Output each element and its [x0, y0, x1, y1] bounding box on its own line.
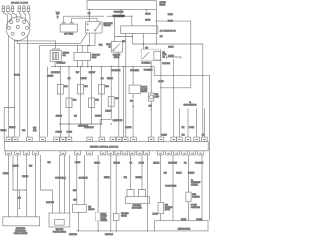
svg-text:FUSE: FUSE — [163, 54, 167, 56]
knock sensor KS1 staple — [127, 190, 134, 197]
injector INJ1 — [57, 84, 63, 94]
svg-text:FUSIBLE LINK: FUSIBLE LINK — [114, 11, 124, 13]
plug wire 6 — [28, 12, 30, 27]
starter relay K1 — [74, 53, 90, 61]
injector 2 leg — [68, 108, 70, 137]
pin marks lower — [7, 152, 202, 154]
c100 wire out — [97, 221, 99, 231]
plug wire 4 — [19, 12, 21, 20]
ETCM box — [3, 217, 40, 226]
map sensor feed 1 — [76, 155, 78, 205]
dot mid bottom d — [147, 230, 148, 231]
junction dot — [131, 16, 132, 17]
svg-text:LT GRN: LT GRN — [67, 131, 72, 133]
wire jog left — [4, 108, 14, 142]
injector column 3 feed — [80, 67, 82, 85]
svg-text:DK GRN/BLK: DK GRN/BLK — [57, 63, 66, 65]
svg-text:CONTROL: CONTROL — [104, 25, 111, 27]
svg-text:GRN: GRN — [22, 130, 25, 132]
alternator box B3 — [121, 26, 158, 34]
svg-text:TO TEST: TO TEST — [191, 205, 197, 207]
bottom ground bus — [77, 230, 155, 232]
wire to alternator top — [131, 16, 133, 26]
svg-text:THROTTLE: THROTTLE — [56, 229, 64, 231]
svg-text:BLK: BLK — [182, 127, 185, 129]
svg-text:BLK/WHT: BLK/WHT — [105, 110, 112, 112]
spark plug P1 — [2, 6, 5, 12]
wire mid bottom a — [110, 155, 112, 231]
park solenoid wire — [187, 155, 189, 192]
svg-text:DK GRN/PNK: DK GRN/PNK — [79, 177, 88, 179]
spark plug P2 — [7, 6, 10, 12]
ECM box — [4, 141, 208, 150]
svg-text:POSITION SENSOR: POSITION SENSOR — [53, 232, 66, 234]
svg-text:DK GRN/BLK: DK GRN/BLK — [112, 70, 121, 72]
csv out cont — [132, 99, 134, 138]
ECM lower pin row — [6, 151, 204, 155]
svg-text:GRY: GRY — [73, 200, 76, 202]
svg-text:WHT/BLK: WHT/BLK — [114, 163, 120, 165]
relay feed wires — [77, 46, 88, 53]
relay contacts — [143, 52, 149, 59]
svg-text:TAN/BLK: TAN/BLK — [107, 77, 113, 80]
svg-text:OIL PRESS: OIL PRESS — [121, 213, 129, 215]
injector INJ6 — [108, 97, 114, 107]
svg-text:ALTERNATE: ALTERNATE — [133, 204, 141, 207]
svg-text:OV TEMP: OV TEMP — [141, 89, 147, 91]
splice arrow A — [103, 15, 105, 17]
cold start valve — [129, 85, 140, 94]
distributor cap terminal box B1 — [60, 23, 77, 32]
ignition coil B2 — [50, 49, 61, 61]
svg-text:LT GRN: LT GRN — [75, 162, 80, 164]
plug wire 1 — [3, 12, 7, 26]
csv arrow — [132, 97, 134, 99]
pump leg — [150, 101, 152, 137]
svg-text:PPL/BRN: PPL/BRN — [22, 176, 28, 178]
wire alt arrow drop — [142, 33, 144, 36]
svg-text:A/C: A/C — [163, 51, 165, 54]
svg-text:BLK/PPL: BLK/PPL — [104, 177, 110, 179]
svg-text:TO A/C SYSTEM: TO A/C SYSTEM — [165, 184, 177, 187]
junction dot — [112, 16, 113, 17]
fuel pump M1 — [149, 93, 154, 101]
connector bracket C2 — [167, 57, 181, 59]
svg-text:START MOT: START MOT — [92, 53, 100, 56]
svg-text:B/U LP: B/U LP — [106, 44, 111, 46]
svg-text:INJ 5: INJ 5 — [105, 86, 109, 88]
tps wire 4 — [69, 155, 71, 213]
svg-text:ORN: ORN — [73, 190, 76, 192]
svg-text:FUEL: FUEL — [155, 94, 159, 96]
wire after fusible link — [125, 15, 132, 17]
junction block box — [155, 221, 208, 231]
svg-text:RED: RED — [145, 47, 148, 49]
svg-text:TAN/BLK: TAN/BLK — [0, 129, 6, 132]
injector column 2 feed — [68, 67, 70, 98]
svg-text:CLUSTER: CLUSTER — [191, 185, 198, 187]
svg-text:BRN: BRN — [48, 162, 51, 164]
svg-text:BLK/WHT: BLK/WHT — [56, 115, 63, 117]
svg-text:1 BLK/W: 1 BLK/W — [168, 55, 174, 57]
svg-text:SWITCH: SWITCH — [160, 4, 166, 6]
svg-text:DK GRN: DK GRN — [14, 75, 20, 77]
svg-text:BLK/WHT: BLK/WHT — [80, 78, 87, 80]
svg-text:SOLENOID: SOLENOID — [165, 207, 172, 209]
dot L2 — [156, 43, 157, 44]
svg-text:DK GRN/BLK: DK GRN/BLK — [130, 70, 139, 72]
svg-text:BLK/LT BLU: BLK/LT BLU — [105, 234, 113, 236]
distributor cap — [6, 17, 30, 41]
park out — [187, 202, 189, 221]
svg-text:DK BLU: DK BLU — [145, 20, 150, 22]
tps wire 2 — [59, 155, 61, 213]
plug wire 2 — [8, 12, 12, 20]
svg-text:WHT: WHT — [29, 166, 32, 168]
ecm c2 wires — [179, 109, 204, 138]
wire ign sw drop to module — [88, 9, 90, 21]
junction dot — [156, 20, 157, 21]
svg-text:WHT: WHT — [33, 128, 36, 130]
wire mid bottom d — [147, 155, 149, 231]
svg-text:(C-D): (C-D) — [33, 130, 37, 132]
distributor towers — [7, 19, 28, 35]
svg-text:PPL/WHT (BLU): PPL/WHT (BLU) — [55, 177, 66, 179]
lower pin labels row — [3, 162, 204, 179]
svg-text:DK BLU: DK BLU — [168, 46, 173, 48]
junction dot — [132, 36, 133, 37]
lower left wires to ETCM — [9, 155, 36, 217]
svg-text:ENGINE CONTROL MODULE: ENGINE CONTROL MODULE — [90, 147, 119, 149]
injector ground bus — [59, 119, 100, 137]
svg-text:GRY/RED: GRY/RED — [135, 177, 142, 179]
wire F down — [47, 67, 49, 137]
fusible link — [113, 15, 125, 18]
tach test terminal — [56, 15, 59, 19]
svg-text:BLK: BLK — [74, 115, 77, 117]
svg-text:DK BLU: DK BLU — [176, 173, 181, 175]
svg-text:DK BLU: DK BLU — [168, 14, 173, 16]
junction dot — [143, 43, 144, 44]
knock sensor wire 2 — [141, 155, 143, 190]
svg-text:BLK/WHT BLK: BLK/WHT BLK — [113, 120, 123, 122]
svg-text:RLY: RLY — [163, 56, 166, 58]
svg-text:DK BLU: DK BLU — [153, 214, 158, 216]
wire dist C down — [19, 43, 21, 137]
svg-text:IGNITION SWITCH: IGNITION SWITCH — [178, 229, 190, 231]
svg-text:INJ 1: INJ 1 — [64, 86, 68, 88]
tps wire 3 — [64, 155, 66, 213]
injector INJ2 — [66, 98, 72, 108]
wire ign sw right drop — [155, 9, 157, 43]
wire L1 — [156, 21, 191, 88]
wire coil to bus — [54, 61, 56, 66]
plug wire 5 — [24, 12, 26, 21]
knock sensor KS2 staple — [139, 190, 146, 197]
svg-text:INJ 3: INJ 3 — [84, 86, 88, 88]
svg-text:INJ 6: INJ 6 — [115, 98, 119, 100]
ign switch stub c — [146, 9, 148, 11]
svg-text:PUMP: PUMP — [155, 97, 159, 99]
svg-text:CONNECTOR: CONNECTOR — [191, 207, 200, 209]
pn switch out — [118, 52, 120, 137]
svg-text:PPL: PPL — [184, 163, 187, 165]
wire L2 right rail — [132, 44, 202, 137]
svg-text:INJ 2: INJ 2 — [73, 100, 77, 102]
svg-text:LT GRN: LT GRN — [139, 163, 144, 165]
injector 5 leg — [101, 94, 103, 124]
injector 3 leg — [80, 94, 82, 124]
svg-text:BLK/WHT: BLK/WHT — [95, 115, 102, 117]
svg-text:(PPL): (PPL) — [99, 45, 103, 47]
wire right bottom c — [201, 155, 203, 221]
svg-text:SWITCH: SWITCH — [121, 215, 127, 217]
dot bus end — [100, 123, 101, 124]
svg-text:DK BLU: DK BLU — [145, 14, 150, 16]
svg-text:SENSOR: SENSOR — [88, 209, 94, 211]
knock sensor wire 1 — [130, 155, 132, 190]
csv feed — [132, 67, 134, 86]
spark plug P3 — [11, 6, 14, 12]
svg-text:SEE FUSE BLK: SEE FUSE BLK — [78, 125, 88, 127]
svg-text:BATTERY: BATTERY — [160, 1, 167, 4]
svg-text:SOLENOID: SOLENOID — [192, 197, 199, 199]
ign switch stub b — [120, 9, 122, 14]
dot pump bus cross — [151, 66, 152, 67]
svg-text:ELECTRONIC: ELECTRONIC — [16, 228, 25, 230]
svg-text:TO: TO — [191, 180, 194, 182]
wire right rail — [154, 76, 209, 221]
svg-text:LT GRN: LT GRN — [189, 127, 194, 129]
pn switch feed — [115, 16, 133, 41]
svg-text:COIL: COIL — [63, 55, 67, 57]
wire module out 1 — [88, 33, 90, 46]
svg-text:BLK/WHT: BLK/WHT — [125, 127, 132, 129]
wire HB module feed — [72, 18, 98, 22]
svg-text:MAP: MAP — [88, 206, 91, 209]
svg-text:CAP TERM: CAP TERM — [64, 33, 74, 36]
svg-text:IGNITION: IGNITION — [63, 53, 69, 55]
svg-text:1 BLK/W: 1 BLK/W — [161, 135, 167, 137]
injector column 6 feed — [110, 67, 112, 97]
fuel pump relay K2 — [141, 49, 161, 61]
wire alt out mid — [131, 33, 133, 44]
wire alt out left — [125, 33, 127, 137]
svg-text:ALTERNATOR: ALTERNATOR — [160, 29, 176, 32]
wire HA fuse line — [64, 15, 103, 17]
spark plug P5 — [23, 6, 26, 12]
svg-text:RED: RED — [164, 173, 167, 175]
svg-text:EGR: EGR — [165, 204, 168, 206]
svg-text:BLK/WHT: BLK/WHT — [188, 173, 195, 175]
injector 6 leg — [100, 106, 111, 119]
svg-text:INJ 4: INJ 4 — [95, 100, 99, 102]
svg-text:ECM CONNECTOR: ECM CONNECTOR — [184, 104, 197, 106]
svg-text:BLK: BLK — [130, 101, 133, 103]
wire HA fuse line cont — [107, 15, 113, 17]
plug wire 3 — [12, 12, 16, 19]
svg-text:SPARK PLUGS: SPARK PLUGS — [11, 2, 28, 5]
wire dist D down — [27, 36, 29, 138]
map sensor feed 2 — [83, 155, 85, 205]
ECM upper pin row — [6, 137, 207, 141]
c100 connector — [95, 212, 100, 221]
svg-text:TACH: TACH — [56, 12, 60, 15]
wire right b — [173, 59, 175, 137]
upper pin labels row — [0, 125, 204, 136]
oil switch wire — [115, 155, 117, 214]
injector column 5 feed — [101, 67, 103, 85]
svg-text:DK GRN/BLK: DK GRN/BLK — [51, 72, 60, 74]
svg-text:C16: C16 — [202, 135, 205, 137]
svg-text:BRN: BRN — [149, 106, 152, 108]
feed bus — [51, 67, 154, 76]
egr out — [160, 214, 162, 221]
injector INJ3 — [78, 84, 84, 94]
svg-text:BLU: BLU — [160, 36, 163, 38]
knock sensor base box — [125, 197, 149, 204]
oil switch out — [115, 220, 117, 231]
svg-text:PPL/WHT: PPL/WHT — [56, 131, 63, 133]
throttle position sensor — [49, 213, 70, 227]
svg-text:BRN/BLK: BRN/BLK — [153, 163, 159, 165]
svg-text:DK BLU/OR: DK BLU/OR — [162, 63, 170, 65]
wire H3 — [17, 33, 87, 43]
relay feed dots — [77, 45, 89, 46]
svg-text:GROUND: GROUND — [101, 220, 107, 222]
svg-text:DK BLU: DK BLU — [168, 20, 173, 22]
svg-text:PNK: PNK — [182, 135, 185, 137]
svg-text:WHT: WHT — [76, 72, 79, 74]
ignition module U1 — [85, 22, 102, 33]
gnd bus dots — [60, 123, 112, 124]
wire arrow cont — [142, 39, 144, 49]
park neutral switch S1 — [111, 42, 122, 53]
wire right a — [160, 59, 162, 137]
dot pn feed — [114, 16, 115, 17]
svg-text:BLK: BLK — [18, 198, 21, 200]
svg-text:CONTROL MODULE: CONTROL MODULE — [14, 233, 28, 235]
wire H2 module return — [40, 33, 95, 137]
injector 4 leg — [91, 108, 93, 124]
svg-text:SENSOR: SENSOR — [141, 91, 147, 93]
wire relay to pump — [150, 61, 152, 93]
injector INJ5 — [99, 84, 105, 94]
svg-text:BLK/WHT: BLK/WHT — [47, 76, 54, 78]
svg-text:WHT/BLK: WHT/BLK — [9, 127, 15, 129]
svg-text:PARK: PARK — [192, 193, 196, 196]
injector 1 leg — [59, 94, 61, 137]
oil pressure switch — [113, 214, 119, 221]
park solenoid — [186, 192, 191, 201]
junction dots on H2 — [89, 45, 90, 46]
svg-text:PPL: PPL — [130, 163, 133, 165]
svg-text:DK GRN/BLK: DK GRN/BLK — [142, 62, 151, 64]
wire extra mid — [123, 67, 125, 137]
splice arrow B — [143, 37, 145, 39]
spark plug P6 — [27, 6, 30, 12]
svg-text:BLK/LT BLU: BLK/LT BLU — [46, 202, 54, 204]
dot L1 join — [160, 87, 161, 88]
wire coil right terminal — [71, 18, 73, 23]
tps feed jog — [41, 155, 53, 213]
relay coil box — [154, 51, 161, 60]
pin marks upper — [8, 139, 206, 141]
svg-text:BLK/LT BLU: BLK/LT BLU — [69, 234, 77, 236]
injector column 4 feed — [91, 67, 93, 98]
wire right bottom b — [172, 155, 174, 221]
svg-text:COLD ST: COLD ST — [141, 86, 147, 88]
svg-text:GRN: GRN — [124, 177, 127, 179]
svg-text:C2: C2 — [189, 102, 191, 104]
injector column 1 feed — [59, 67, 61, 85]
stub dots — [12, 189, 26, 209]
wire dist B down — [14, 41, 16, 137]
junction dot — [150, 109, 151, 110]
csv out — [132, 94, 134, 97]
blk stub — [19, 190, 21, 208]
wire dist A down — [8, 36, 10, 137]
svg-text:BLK/WHT: BLK/WHT — [89, 72, 96, 74]
map sensor — [73, 205, 87, 213]
spark plug P4 — [18, 6, 21, 12]
egr solenoid — [158, 202, 164, 213]
c100 wire — [97, 155, 99, 212]
junction dot — [132, 106, 133, 107]
wire coil left terminal — [63, 16, 65, 23]
egr wire — [160, 155, 162, 202]
svg-text:BLK/TAN: BLK/TAN — [3, 172, 9, 175]
blk stub jog — [13, 155, 26, 190]
bus dots bottom — [78, 230, 117, 231]
ignition switch box — [87, 1, 156, 10]
svg-text:ELEC SPARK: ELEC SPARK — [104, 22, 113, 25]
map out — [77, 212, 79, 231]
injector INJ4 — [89, 98, 95, 108]
bus dots — [54, 66, 133, 67]
junction dot — [89, 16, 90, 17]
svg-text:INSTRUMENT: INSTRUMENT — [191, 182, 201, 184]
jog dot — [14, 107, 15, 108]
svg-text:TAN/BLK: TAN/BLK — [94, 162, 100, 165]
svg-text:SUPPLY: SUPPLY — [101, 213, 107, 215]
wire H1 coil feed — [14, 40, 55, 49]
relay out wires — [77, 61, 88, 68]
